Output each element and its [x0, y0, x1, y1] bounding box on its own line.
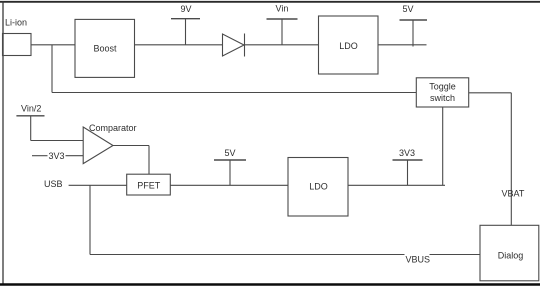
svg-text:Li-ion: Li-ion — [5, 18, 27, 28]
svg-text:USB: USB — [44, 179, 63, 189]
svg-text:Vin: Vin — [276, 4, 289, 14]
svg-text:Vin/2: Vin/2 — [21, 104, 41, 114]
svg-text:LDO: LDO — [309, 182, 328, 192]
svg-text:VBUS: VBUS — [406, 254, 431, 264]
svg-text:LDO: LDO — [339, 41, 358, 51]
svg-text:switch: switch — [430, 93, 455, 103]
svg-text:VBAT: VBAT — [502, 188, 525, 198]
svg-text:3V3: 3V3 — [399, 148, 415, 158]
svg-text:PFET: PFET — [137, 180, 161, 190]
svg-text:9V: 9V — [181, 4, 192, 14]
svg-text:Comparator: Comparator — [89, 123, 137, 133]
svg-text:3V3: 3V3 — [49, 151, 65, 161]
svg-text:Boost: Boost — [93, 44, 117, 54]
svg-text:5V: 5V — [403, 4, 414, 14]
svg-text:Toggle: Toggle — [429, 82, 456, 92]
svg-text:5V: 5V — [225, 148, 236, 158]
svg-text:Dialog: Dialog — [498, 251, 524, 261]
